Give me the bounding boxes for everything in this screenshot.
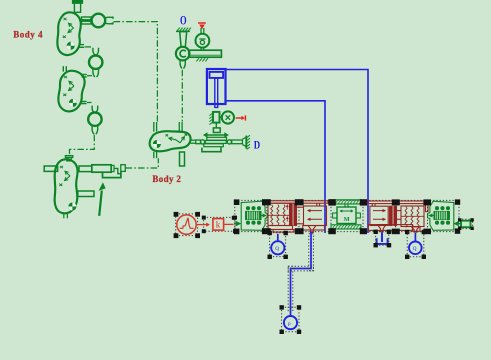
svg-text:Q: Q — [413, 246, 417, 252]
svg-text:D: D — [254, 139, 260, 152]
svg-text:Body 2: Body 2 — [152, 174, 181, 184]
svg-text:O: O — [180, 14, 187, 28]
svg-text:k: k — [216, 220, 221, 230]
svg-text:Body 4: Body 4 — [13, 29, 43, 39]
svg-text:M: M — [344, 216, 350, 223]
svg-text:p: p — [288, 321, 291, 327]
svg-text:Q: Q — [275, 246, 279, 252]
